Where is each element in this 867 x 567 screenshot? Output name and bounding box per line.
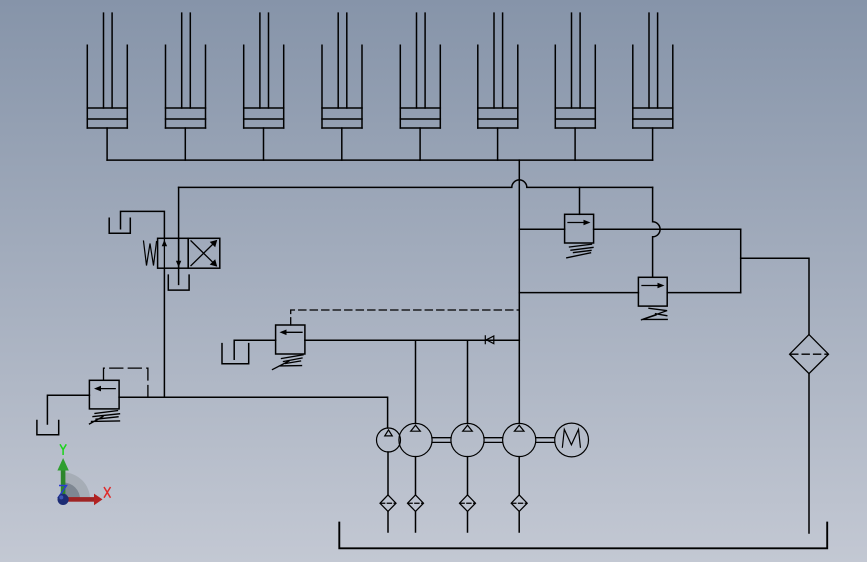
wire: pump P3 suction line xyxy=(467,457,469,532)
wire: cylinder CYL4 port line xyxy=(341,128,343,160)
coordinate triad: X axis arrow (red) xyxy=(63,497,94,502)
coordinate triad: X label (red) xyxy=(104,487,111,498)
tank symbol (valve V3 drain) xyxy=(37,421,59,435)
wire: pilot header to valve V2 with crossover hop xyxy=(653,187,661,277)
wire: pump P3 delivery riser xyxy=(467,340,469,423)
wire: pump suction header xyxy=(119,397,388,428)
wire: line from pilot header into solenoid valve P-port xyxy=(178,187,180,284)
coordinate triad: Y label (green) xyxy=(60,444,66,455)
coordinate triad: origin ball (blue) xyxy=(58,494,69,505)
tank symbol (solenoid valve bottom drain) xyxy=(168,275,189,290)
wire: cylinder CYL1 port line xyxy=(106,128,108,160)
wire: valve V1 outlet to right loop xyxy=(594,228,741,230)
wire: cylinder CYL7 port line xyxy=(574,128,576,160)
wire: valve V3 drain to tank xyxy=(47,395,89,424)
wire: pump P2 delivery riser xyxy=(415,340,417,423)
hydraulic cylinder CYL5 xyxy=(400,13,440,128)
tank symbol (solenoid valve top drain) xyxy=(109,218,130,233)
valve V5 right-box crossed arrows xyxy=(191,241,216,266)
shaft coupling P2-P3 xyxy=(432,438,451,443)
wire: pump P2 suction line xyxy=(415,457,417,532)
valve V2 flow arrow xyxy=(642,285,661,287)
valve V5 flow arrowheads xyxy=(162,240,167,246)
wire: pilot header line with crossover hop xyxy=(179,180,653,187)
hydraulic cylinder CYL6 xyxy=(478,13,518,128)
pump P1 xyxy=(377,428,401,452)
wire: valve V4 drain to tank xyxy=(234,340,275,359)
return filter F1 (diamond) xyxy=(790,335,829,374)
valve V5 solenoid spring (W) xyxy=(144,241,157,266)
directional solenoid valve V5 body xyxy=(158,238,189,268)
pump P2 xyxy=(399,423,432,456)
hydraulic cylinder CYL1 xyxy=(87,13,127,128)
wire: cylinder CYL5 port line xyxy=(419,128,421,160)
suction strainer S4 (diamond) xyxy=(511,495,527,512)
sequence valve V2 body xyxy=(638,277,667,306)
wire: solenoid valve A-port line to top tank xyxy=(121,211,165,238)
valve V2 spring xyxy=(642,308,668,320)
wire: cylinder CYL6 port line xyxy=(497,128,499,160)
wire: manifold header line xyxy=(107,159,653,161)
wire: right loop vertical xyxy=(740,229,742,292)
suction strainer S3 (diamond) xyxy=(460,495,476,512)
wire: valve V2 outlet to right loop xyxy=(667,292,741,294)
wire: return branch to filter xyxy=(741,258,809,334)
shaft coupling P3-P4 xyxy=(484,438,503,443)
hydraulic cylinder CYL7 xyxy=(555,13,595,128)
wire: main pressure line (manifold to pump P4) xyxy=(518,160,520,423)
hydraulic cylinder CYL4 xyxy=(322,13,362,128)
valve V4 flow arrow xyxy=(284,331,303,333)
valve V5 left-box flow path (through box) xyxy=(164,238,178,268)
wire: main line to valve V1 inlet xyxy=(519,228,564,230)
valve V1 flow arrow xyxy=(568,222,587,224)
wire: valve V1 pilot line to header xyxy=(579,187,581,214)
valve V3 flow arrow xyxy=(98,388,116,390)
valve V4 spring xyxy=(273,355,304,370)
wire: cylinder CYL2 port line xyxy=(184,128,186,160)
electric motor M1 xyxy=(555,423,589,457)
valve V3 pilot line (dashed) xyxy=(104,368,148,397)
wire: cylinder CYL3 port line xyxy=(263,128,265,160)
coordinate triad: Z label (blue) xyxy=(59,486,68,498)
relief valve V3 body xyxy=(89,380,119,409)
wire: pump P4 suction line xyxy=(518,457,520,532)
coordinate triad: shaded sectors xyxy=(63,472,90,499)
tank symbol (valve V4 drain) xyxy=(222,344,249,364)
suction strainer S2 (diamond) xyxy=(408,495,424,512)
check valve arrow on delivery header xyxy=(485,336,494,344)
valve V1 spring xyxy=(567,244,593,258)
valve V3 spring xyxy=(90,411,120,424)
hydraulic cylinder CYL8 xyxy=(633,13,673,128)
hydraulic cylinder CYL2 xyxy=(166,13,206,128)
sequence valve V1 body xyxy=(565,214,594,243)
wire: solenoid valve lower line to pump suction header xyxy=(163,268,165,397)
reservoir tank xyxy=(339,523,827,549)
relief valve V4 body xyxy=(276,325,305,354)
pump P4 xyxy=(503,423,536,456)
shaft coupling P4-M1 xyxy=(536,438,555,443)
valve V4 pilot line (dashed) xyxy=(291,310,520,325)
coordinate triad: Y axis arrow (green) xyxy=(61,470,66,500)
wire: filter to tank xyxy=(808,374,810,533)
suction strainer S1 (diamond) xyxy=(380,495,396,512)
wire: cylinder CYL8 port line xyxy=(652,128,654,160)
wire: pump delivery header xyxy=(305,339,519,341)
wire: pump P1 suction line xyxy=(387,452,389,532)
pump P3 xyxy=(451,423,484,456)
hydraulic cylinder CYL3 xyxy=(244,13,284,128)
wire: main line to valve V2 inlet xyxy=(519,292,638,294)
